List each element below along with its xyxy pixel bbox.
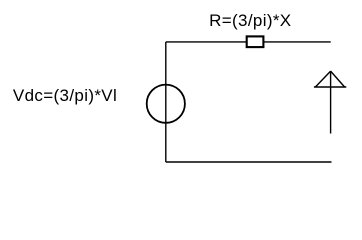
voltage source V1 (circle) [147,85,185,123]
arrow head base line [314,86,346,88]
arrow head triangle left side [315,71,330,87]
resistor value label R=(3/pi)*X [209,11,291,30]
arrow head triangle right side [331,71,345,87]
resistor R (box) [247,36,264,47]
svg-text:R=(3/pi)*X: R=(3/pi)*X [209,11,291,30]
wire left vertical [165,42,167,162]
svg-text:Vdc=(3/pi)*Vl: Vdc=(3/pi)*Vl [13,86,117,105]
wire bottom horizontal [166,161,332,163]
wire top horizontal [166,41,331,43]
arrow (output indicator) vertical line [330,71,332,133]
source value label Vdc=(3/pi)*Vl [13,86,117,105]
